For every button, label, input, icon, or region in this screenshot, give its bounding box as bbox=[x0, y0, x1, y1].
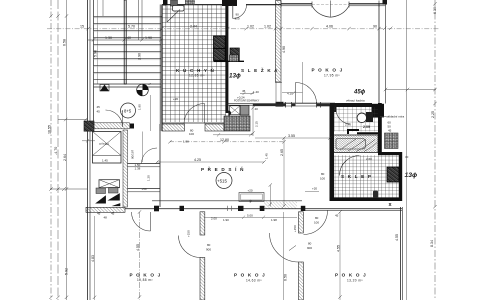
hall dim vline bbox=[283, 138, 285, 206]
dim vline room2 bbox=[283, 212, 285, 300]
bathroom floor grid bbox=[334, 107, 378, 132]
wc wedge 3 bbox=[112, 203, 121, 206]
svg-text:2.90: 2.90 bbox=[138, 53, 142, 60]
wc triangle 1 bbox=[96, 196, 106, 203]
svg-text:+20: +20 bbox=[173, 97, 178, 101]
hall dim line 1b bbox=[255, 137, 330, 139]
svg-text:3.55: 3.55 bbox=[288, 134, 295, 138]
svg-text:1.20: 1.20 bbox=[147, 175, 151, 181]
svg-text:4.06: 4.06 bbox=[326, 24, 333, 28]
door jamb block C bbox=[260, 206, 265, 211]
french door center stile bbox=[330, 1, 332, 18]
stair dim line bbox=[88, 39, 162, 41]
svg-text:45ϕ: 45ϕ bbox=[353, 90, 366, 96]
dim vline room3 bbox=[339, 212, 341, 300]
dimension line left 3 bbox=[66, 0, 68, 300]
kitchen sink bbox=[173, 6, 185, 12]
hall dim line 2 bbox=[157, 161, 264, 163]
svg-text:4.90: 4.90 bbox=[282, 46, 286, 53]
svg-text:1.45: 1.45 bbox=[265, 153, 269, 159]
cellar floor grid bbox=[334, 155, 399, 197]
svg-text:1.40: 1.40 bbox=[253, 90, 259, 94]
svg-text:15: 15 bbox=[80, 24, 84, 28]
pantry top wall bbox=[246, 4, 281, 6]
corridor walls bbox=[128, 163, 161, 165]
svg-text:80: 80 bbox=[308, 242, 312, 246]
counter appliance gray bbox=[171, 0, 178, 6]
svg-text:1.90: 1.90 bbox=[138, 104, 142, 110]
svg-text:4.25: 4.25 bbox=[194, 158, 201, 162]
wall below stairs hatched bbox=[94, 123, 130, 129]
door jamb block D bbox=[301, 206, 306, 211]
svg-text:90: 90 bbox=[373, 24, 377, 28]
svg-text:48: 48 bbox=[104, 215, 108, 219]
kitchen balcony door leaf bbox=[167, 6, 180, 22]
svg-text:1.98: 1.98 bbox=[271, 218, 277, 222]
svg-text:1.45: 1.45 bbox=[102, 159, 108, 163]
pantry bottom wall bbox=[226, 104, 284, 106]
wc triangle 2 bbox=[109, 194, 120, 201]
svg-text:90/197: 90/197 bbox=[131, 149, 135, 159]
pantry wall lower thin bbox=[275, 82, 282, 104]
cellar top-right black wall bbox=[378, 152, 402, 155]
svg-text:větrací šachta: větrací šachta bbox=[346, 99, 365, 103]
room2 door arc bbox=[270, 233, 299, 262]
svg-text:5.70: 5.70 bbox=[128, 24, 135, 28]
svg-text:4.83: 4.83 bbox=[91, 255, 95, 262]
hall door arc to room3 bbox=[304, 211, 328, 235]
door arc below stairs bbox=[106, 110, 123, 127]
svg-text:5.90: 5.90 bbox=[93, 50, 97, 57]
elevator shaft bbox=[93, 132, 122, 164]
svg-text:12,85 m²: 12,85 m² bbox=[189, 74, 205, 78]
svg-text:2.46: 2.46 bbox=[345, 123, 351, 127]
kitchen left wall bbox=[161, 5, 163, 132]
kitchen top wall bbox=[162, 4, 228, 6]
svg-text:+150: +150 bbox=[187, 230, 191, 237]
cellar door arc bbox=[340, 156, 360, 176]
cellar dark box bbox=[387, 167, 399, 182]
window dim line left bbox=[82, 139, 95, 142]
door arc to hall bbox=[296, 83, 317, 104]
svg-text:1.90: 1.90 bbox=[223, 218, 229, 222]
kitchen door arc bbox=[184, 104, 205, 124]
fixture tank 1 bbox=[96, 188, 106, 194]
svg-text:1.02: 1.02 bbox=[264, 24, 271, 28]
svg-text:+0,24: +0,24 bbox=[237, 96, 245, 100]
dim vline room1 bbox=[139, 212, 141, 300]
svg-text:8.34: 8.34 bbox=[430, 240, 434, 247]
svg-text:2.15: 2.15 bbox=[255, 121, 259, 127]
svg-text:80: 80 bbox=[315, 216, 319, 220]
door jamb block B bbox=[238, 206, 244, 211]
svg-text:19,88 m²: 19,88 m² bbox=[137, 278, 153, 282]
pantry brick block bbox=[230, 55, 239, 62]
window sill dashed bbox=[312, 4, 349, 6]
svg-text:900: 900 bbox=[235, 16, 240, 20]
counter appliance black bbox=[163, 0, 168, 6]
bathroom right wall black bbox=[378, 103, 382, 153]
svg-text:40: 40 bbox=[249, 199, 253, 203]
dimension line left mid bbox=[58, 118, 87, 121]
svg-text:1.38: 1.38 bbox=[135, 166, 141, 170]
dim vline 4.83 bbox=[94, 216, 96, 300]
leader line bbox=[380, 116, 386, 118]
svg-text:40: 40 bbox=[255, 107, 259, 111]
french door right arc bbox=[331, 6, 350, 17]
wall thick segments bbox=[253, 104, 334, 106]
closet dim vline bbox=[269, 185, 271, 207]
bathroom top wall black bbox=[330, 103, 372, 107]
dimension tick crossing bbox=[50, 187, 87, 191]
masonry block corner bbox=[224, 116, 250, 131]
pantry door arc top bbox=[233, 5, 247, 19]
bathtub wave shading bbox=[340, 139, 377, 152]
top dark block right bbox=[222, 0, 237, 6]
svg-text:45: 45 bbox=[388, 129, 392, 133]
svg-text:1.02: 1.02 bbox=[247, 24, 254, 28]
svg-text:P O K O J: P O K O J bbox=[130, 273, 162, 278]
svg-text:14,63 m²: 14,63 m² bbox=[246, 279, 262, 283]
room1/room2 wall bbox=[200, 212, 205, 235]
right side dim line horizontal bbox=[385, 89, 436, 91]
bathroom door jamb bbox=[332, 107, 337, 112]
kitchen bottom wall hatched bbox=[162, 124, 185, 131]
cellar right black wall bbox=[399, 152, 402, 201]
svg-text:13,20 m²: 13,20 m² bbox=[347, 279, 363, 283]
svg-text:45: 45 bbox=[97, 105, 101, 109]
svg-text:S L E Ž K A: S L E Ž K A bbox=[241, 66, 279, 73]
cellar bottom black wall bbox=[330, 198, 403, 202]
svg-text:6.58: 6.58 bbox=[63, 39, 67, 46]
wall lower face line bbox=[125, 208, 402, 210]
svg-text:16.55: 16.55 bbox=[48, 125, 52, 134]
chimney black block bbox=[372, 104, 385, 118]
right wall bottom rooms bbox=[400, 207, 402, 300]
svg-text:6.30: 6.30 bbox=[433, 7, 437, 14]
hall dim line 1 bbox=[170, 141, 284, 143]
svg-text:80: 80 bbox=[207, 243, 211, 247]
svg-text:45: 45 bbox=[97, 110, 101, 114]
corridor door arc bbox=[142, 148, 158, 164]
dimension line top horizontal bbox=[47, 28, 440, 30]
bathtub inner outline bbox=[336, 139, 366, 150]
jamb marks mid bbox=[228, 206, 232, 211]
svg-text:5.92: 5.92 bbox=[65, 268, 69, 275]
svg-text:-4.70: -4.70 bbox=[54, 147, 58, 155]
pantry right hatched wall bbox=[276, 1, 282, 83]
svg-text:4.55: 4.55 bbox=[395, 234, 399, 241]
svg-text:2.60: 2.60 bbox=[366, 157, 372, 161]
svg-text:2.25: 2.25 bbox=[431, 111, 435, 118]
level circle 8+5 bbox=[121, 103, 136, 118]
BD box bbox=[100, 85, 109, 92]
stove block lower bbox=[214, 49, 226, 61]
dimension line right bbox=[434, 0, 436, 300]
svg-text:45: 45 bbox=[335, 214, 339, 218]
svg-text:45: 45 bbox=[242, 89, 246, 93]
dimension line left 2 bbox=[57, 0, 59, 300]
svg-text:80: 80 bbox=[321, 172, 325, 176]
svg-text:P O K O J: P O K O J bbox=[312, 68, 344, 73]
svg-text:30: 30 bbox=[405, 155, 409, 159]
svg-text:100: 100 bbox=[314, 221, 319, 225]
staircase treads bbox=[94, 23, 162, 87]
mailbox x-box bbox=[230, 106, 241, 115]
svg-text:K U C H Y Ň: K U C H Y Ň bbox=[176, 66, 215, 73]
corridor dim vline bbox=[142, 132, 144, 163]
svg-text:POŠTOVNÍ SCHRÁNKY: POŠTOVNÍ SCHRÁNKY bbox=[234, 100, 260, 103]
fixture tank 2 bbox=[109, 188, 119, 194]
black dot wall end bbox=[228, 110, 231, 115]
dim vline door bbox=[302, 62, 304, 103]
level circle +515 bbox=[216, 173, 232, 189]
door jamb block A2 bbox=[180, 206, 185, 211]
svg-text:40: 40 bbox=[127, 36, 131, 40]
wall jamb ticks mid bbox=[286, 102, 321, 108]
dimension ticks bbox=[49, 2, 436, 299]
dimension line left 1 bbox=[50, 0, 52, 300]
tick line below +20 bbox=[305, 191, 319, 193]
toilet bbox=[357, 113, 367, 123]
bottom rooms top wall left hatch bbox=[86, 207, 125, 212]
dim line 4.10 bbox=[282, 91, 303, 94]
pantry dim 45 bbox=[240, 92, 254, 95]
stair edge line short bbox=[102, 0, 104, 17]
room1 door arc bbox=[179, 236, 201, 258]
svg-text:100: 100 bbox=[189, 132, 194, 136]
room2/room3 wall bbox=[299, 212, 304, 233]
kitchen floor grid bbox=[163, 5, 227, 122]
stair landing edge bbox=[94, 15, 163, 17]
dim line below mailboxes bbox=[213, 133, 253, 136]
fridge block right of wall bbox=[230, 48, 239, 61]
door jamb block A bbox=[154, 206, 159, 212]
window jamb ticks bbox=[281, 1, 379, 8]
stair flight verticals bbox=[138, 0, 140, 40]
door jamb corridor bbox=[130, 124, 134, 129]
svg-text:+20: +20 bbox=[248, 188, 253, 192]
svg-text:P O K O J: P O K O J bbox=[234, 273, 266, 278]
svg-text:P Ř E D S Í Ň: P Ř E D S Í Ň bbox=[201, 165, 245, 172]
cellar drain bbox=[373, 191, 378, 199]
dim vline stair hall bbox=[150, 95, 152, 131]
black ledge line bbox=[214, 60, 245, 62]
mailbox striped block bbox=[240, 105, 249, 115]
svg-text:900: 900 bbox=[307, 246, 312, 250]
door arc room1 entry bbox=[132, 212, 151, 231]
top-right room top wall bbox=[281, 3, 386, 5]
room top wall right thin bbox=[302, 209, 402, 211]
svg-text:+20: +20 bbox=[312, 187, 317, 191]
wall corner block bbox=[276, 102, 284, 107]
closet rect bbox=[239, 193, 264, 202]
bathtub step edge bbox=[348, 130, 380, 134]
svg-text:nákladní míra: nákladní míra bbox=[386, 115, 405, 119]
svg-text:1.90: 1.90 bbox=[145, 36, 152, 40]
svg-text:VÝTAH: VÝTAH bbox=[99, 142, 109, 146]
top-right room right wall bbox=[378, 4, 380, 104]
shaft box 2 bbox=[99, 180, 120, 188]
svg-text:4.55: 4.55 bbox=[336, 245, 340, 252]
svg-text:900: 900 bbox=[206, 248, 211, 252]
brick strip right bbox=[385, 133, 399, 149]
stairwell inner wall line bbox=[93, 0, 95, 130]
svg-text:1.30: 1.30 bbox=[105, 36, 112, 40]
wall hatch mid segments bbox=[264, 202, 297, 209]
stair stringer rail bbox=[124, 0, 126, 84]
svg-text:- 8+5: - 8+5 bbox=[122, 109, 132, 114]
stair rail line bbox=[97, 0, 99, 84]
svg-text:S K L E P: S K L E P bbox=[341, 174, 372, 179]
stove block upper bbox=[214, 36, 226, 49]
svg-text:2.09: 2.09 bbox=[363, 125, 370, 129]
bathtub bbox=[334, 135, 379, 153]
dim hline rooms bbox=[205, 216, 297, 219]
compass circle bbox=[137, 84, 149, 96]
svg-text:1.90: 1.90 bbox=[183, 140, 189, 144]
service hatched wall bbox=[123, 130, 128, 207]
arc tick bbox=[289, 246, 296, 251]
svg-text:6.50: 6.50 bbox=[284, 274, 288, 281]
svg-text:4.55: 4.55 bbox=[136, 244, 140, 251]
middle wall horizontal bbox=[284, 102, 335, 104]
french door left arc bbox=[312, 6, 331, 17]
svg-text:+515: +515 bbox=[217, 179, 227, 184]
svg-text:+50: +50 bbox=[142, 187, 147, 191]
exterior left wall bbox=[87, 0, 89, 300]
svg-text:2.65: 2.65 bbox=[280, 149, 284, 156]
svg-text:2.64: 2.64 bbox=[63, 154, 67, 161]
kitchen right wall black bbox=[225, 0, 228, 113]
hall left black wall bbox=[330, 105, 335, 201]
top wall crosshatch patch bbox=[185, 0, 195, 5]
corner blob bbox=[383, 0, 388, 5]
dim vline pantry bbox=[252, 104, 254, 136]
masonry corner block left bbox=[84, 121, 94, 131]
svg-text:100: 100 bbox=[320, 177, 325, 181]
svg-text:13ϕ: 13ϕ bbox=[229, 72, 241, 79]
svg-text:+150: +150 bbox=[293, 225, 297, 232]
wall upper face line bbox=[152, 200, 302, 202]
dim ticks right bbox=[383, 27, 392, 30]
svg-text:17,95 m²: 17,95 m² bbox=[324, 74, 340, 78]
kitchen bottom wall inner face bbox=[162, 122, 225, 124]
svg-text:4.10: 4.10 bbox=[287, 92, 293, 96]
svg-text:5.00: 5.00 bbox=[247, 214, 253, 218]
svg-text:P O K O J: P O K O J bbox=[335, 273, 367, 278]
bathroom door arc bbox=[336, 109, 351, 125]
